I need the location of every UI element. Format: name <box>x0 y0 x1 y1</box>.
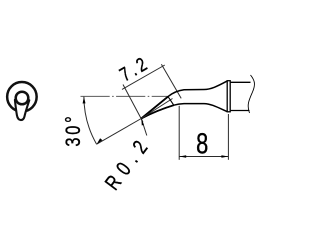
dim 7.2 dimension line <box>122 65 165 89</box>
body cone inner line <box>141 99 172 119</box>
cylinder bottom line <box>231 110 250 112</box>
dim 8 arrow right <box>221 155 228 157</box>
centerline <box>81 95 168 97</box>
collar <box>227 81 230 112</box>
leader R0.2 arrow <box>141 119 144 126</box>
body cone lower edge and neck bottom outline <box>141 104 227 119</box>
angle 30 arrow top <box>83 97 86 104</box>
dim 7.2 extension line left <box>123 85 143 122</box>
svg-text:30°: 30° <box>61 114 84 147</box>
angle 30 arrow bottom <box>97 138 103 144</box>
dim 8 extension left <box>178 106 180 160</box>
dim 8 dimension line <box>179 156 228 158</box>
break line <box>248 75 254 113</box>
dim 8 arrow left <box>179 155 186 157</box>
svg-text:R0.2: R0.2 <box>100 131 156 194</box>
icon inner circle <box>16 92 29 105</box>
icon outer ring <box>7 82 37 112</box>
angle 30 arc <box>84 97 97 145</box>
body cone base crease <box>168 97 174 106</box>
cylinder top line <box>231 81 251 83</box>
dim 7.2 extension line right <box>161 64 181 98</box>
body cone upper edge and neck top outline <box>141 81 227 118</box>
svg-text:8: 8 <box>196 128 208 160</box>
dim 8 extension right <box>227 114 229 160</box>
leader R0.2 line <box>141 119 147 136</box>
icon cone <box>15 100 29 120</box>
angle 30 leg <box>97 119 142 145</box>
svg-text:7.2: 7.2 <box>116 51 154 86</box>
body cone upper edge overlay <box>141 96 168 118</box>
body cone lower edge overlay <box>141 105 174 118</box>
